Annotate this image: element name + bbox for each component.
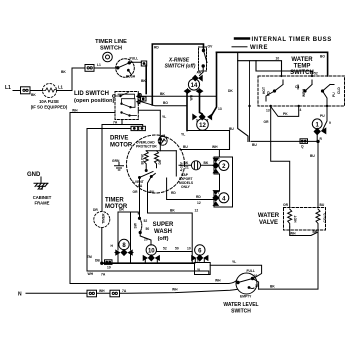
svg-text:BK: BK [204, 161, 209, 165]
svg-text:WH: WH [290, 232, 296, 236]
valve bottom return [259, 227, 318, 289]
svg-text:T: T [218, 191, 220, 195]
motor output RD [167, 178, 214, 200]
wire WH lid switch left [70, 113, 115, 284]
svg-text:WRM: WRM [302, 89, 306, 97]
connector BB on BU wire [300, 139, 308, 144]
svg-text:L1: L1 [5, 85, 11, 91]
svg-text:6: 6 [198, 249, 202, 255]
svg-text:OR: OR [264, 120, 270, 124]
svg-text:9: 9 [329, 121, 331, 125]
labels 52 50 10 [163, 247, 191, 251]
svg-text:PULL: PULL [130, 57, 139, 61]
x-rinse switch (dashed) [199, 47, 208, 71]
svg-text:DR: DR [93, 208, 98, 212]
svg-text:WH: WH [215, 279, 221, 283]
wire BO diagonal from lid switch [141, 102, 187, 106]
wire x-rinse to terminal 14 [200, 67, 204, 76]
label TIMER LINE SWITCH [95, 39, 127, 52]
svg-text:2: 2 [222, 164, 226, 170]
svg-text:10: 10 [197, 259, 201, 263]
svg-text:SWITCH: SWITCH [231, 309, 251, 315]
label WATER VALVE [258, 213, 280, 226]
svg-text:M: M [163, 134, 166, 138]
label X-RINSE SWITCH [165, 58, 196, 70]
svg-text:MOTOR: MOTOR [105, 204, 128, 210]
svg-text:SW: SW [134, 222, 138, 228]
svg-text:SWITCH (off): SWITCH (off) [165, 64, 196, 70]
WH return line [87, 271, 209, 275]
wire into timer line switch [94, 67, 118, 69]
svg-text:(IF SO EQUIPPED): (IF SO EQUIPPED) [31, 105, 68, 110]
connector box under 6 [195, 263, 211, 275]
svg-text:WH: WH [212, 145, 218, 149]
svg-text:TEMP: TEMP [294, 64, 311, 70]
svg-text:YL: YL [181, 133, 185, 137]
svg-text:BU: BU [310, 154, 315, 158]
valve coil cold [316, 209, 327, 227]
svg-text:52: 52 [314, 72, 318, 76]
motor centrifugal switch [139, 170, 156, 179]
svg-text:19: 19 [107, 266, 111, 270]
svg-text:SWITCH: SWITCH [100, 46, 122, 52]
svg-text:SWITCH: SWITCH [290, 70, 314, 76]
svg-text:EMPTY: EMPTY [240, 295, 252, 299]
svg-text:4: 4 [300, 108, 302, 112]
svg-text:L1: L1 [97, 63, 101, 67]
svg-text:YL: YL [162, 115, 166, 119]
svg-text:PUSH: PUSH [126, 75, 136, 79]
svg-text:INTERNAL TIMER BUSS: INTERNAL TIMER BUSS [252, 37, 332, 43]
svg-text:WH: WH [88, 272, 94, 276]
svg-text:WATER: WATER [258, 213, 280, 219]
motor winding main [155, 151, 163, 168]
svg-text:CLD: CLD [337, 87, 341, 94]
svg-text:(open position): (open position) [74, 98, 115, 104]
wire up to timer line switch level [72, 68, 85, 91]
svg-text:BK: BK [31, 93, 36, 97]
svg-text:8A: 8A [138, 184, 143, 188]
label CAP EXPORT MODELS ONLY [179, 173, 194, 189]
svg-text:7A: 7A [101, 273, 106, 277]
labels BU [252, 137, 323, 158]
svg-text:BK: BK [141, 79, 146, 83]
capacitor (export models) [191, 161, 200, 170]
label SUPER WASH [153, 222, 174, 242]
lid switch dashed box [115, 92, 138, 120]
WLS output wire [253, 279, 259, 290]
svg-text:TIMER LINE: TIMER LINE [95, 39, 127, 45]
feed 10 to water temp [238, 61, 282, 76]
terminal 4 (circled) [219, 193, 229, 203]
wire 13 down to valve [271, 106, 290, 208]
drive motor dashed circle [127, 135, 185, 193]
svg-text:YL: YL [232, 260, 236, 264]
label OR, 13 [264, 109, 270, 125]
motor winding start [141, 151, 149, 170]
labels WH 7A [88, 272, 106, 276]
terminal 9 (double circle) [103, 52, 113, 62]
svg-text:RD: RD [267, 91, 271, 96]
svg-text:BU: BU [320, 203, 325, 207]
terminal 10 (circled) [146, 245, 156, 255]
connector diamond + triangles at 12 [193, 114, 212, 120]
svg-text:DK: DK [228, 89, 233, 93]
svg-text:FRAME: FRAME [35, 201, 50, 206]
svg-text:FULL: FULL [247, 269, 255, 273]
connector diamond+triangles at 6 [192, 255, 208, 261]
overload protector symbol [158, 136, 167, 145]
wire terminal 3 to circled 1 [323, 106, 327, 130]
svg-text:10: 10 [148, 249, 155, 255]
svg-text:DRIVE: DRIVE [110, 136, 128, 142]
connector diamond+triangle above 14 [193, 75, 203, 80]
svg-text:10: 10 [187, 247, 191, 251]
wires 8 to bus [115, 253, 133, 264]
wire rect to super wash [118, 212, 138, 250]
small motor ground GRN [112, 159, 124, 170]
labels S T [196, 119, 209, 123]
svg-text:7A: 7A [113, 120, 118, 124]
svg-text:13: 13 [218, 107, 222, 111]
svg-text:BU: BU [229, 127, 234, 131]
temp switch terminal dots [248, 75, 328, 107]
svg-text:1: 1 [316, 122, 320, 128]
label TIMER MOTOR [105, 198, 128, 211]
svg-text:RD: RD [196, 195, 201, 199]
svg-text:50: 50 [175, 247, 179, 251]
svg-text:CABINET: CABINET [33, 195, 52, 200]
timer motor (dashed circle) [94, 212, 110, 228]
svg-text:BU: BU [150, 190, 155, 194]
svg-text:12: 12 [197, 201, 201, 205]
svg-text:HOT: HOT [262, 87, 266, 94]
feed 52 to water temp [256, 61, 312, 76]
svg-text:WH: WH [172, 288, 178, 292]
svg-text:Q: Q [301, 145, 304, 149]
timer bus to water temp switch [217, 52, 328, 76]
WLS contacts [237, 277, 254, 288]
labels 52 50 [134, 219, 150, 242]
label TM DB 19 [87, 255, 111, 270]
svg-text:52: 52 [144, 219, 148, 223]
wire left from connectors [87, 129, 131, 272]
super wash switch (dashed) [138, 214, 151, 245]
connector BB [141, 61, 146, 66]
long WH line to water level switch [70, 280, 237, 283]
svg-text:50: 50 [146, 227, 150, 231]
svg-text:RD: RD [154, 46, 159, 50]
svg-text:OV: OV [208, 45, 214, 49]
svg-text:BK: BK [270, 285, 275, 289]
svg-text:DR: DR [119, 208, 124, 212]
svg-text:BLOW: BLOW [141, 154, 145, 165]
svg-text:BK: BK [160, 92, 165, 96]
connector triangle at 1 [322, 128, 326, 133]
connectors GD GD below lid switch [131, 126, 145, 130]
svg-text:PROTECTOR: PROTECTOR [136, 145, 157, 149]
svg-text:(off): (off) [158, 236, 169, 242]
svg-text:BK: BK [61, 70, 66, 74]
labels WH BR [270, 230, 318, 289]
svg-text:MOTOR: MOTOR [110, 143, 133, 149]
svg-text:OR: OR [283, 203, 289, 207]
terminal 6 (circled) [195, 245, 205, 255]
svg-text:PK: PK [283, 112, 288, 116]
svg-text:BO: BO [163, 101, 168, 105]
motor right winding [176, 151, 183, 176]
wire switch output [129, 61, 141, 64]
motor output OR [139, 178, 141, 215]
temp switch bottom terminal wires [249, 61, 251, 142]
motor output BK down and right [148, 177, 193, 263]
timer line switch (dashed circle, PULL/PUSH) [116, 59, 135, 78]
svg-text:10: 10 [276, 57, 280, 61]
svg-text:TIMER: TIMER [101, 213, 105, 224]
node L1 [5, 85, 11, 91]
connector on N wire [87, 290, 97, 297]
svg-text:OR: OR [133, 190, 139, 194]
svg-text:N: N [18, 292, 22, 298]
ground symbol cabinet frame [34, 177, 48, 189]
legend WIRE [232, 45, 268, 51]
wires 6 to box [195, 259, 204, 263]
wire L1 to fuse [13, 90, 72, 92]
svg-text:WASH: WASH [154, 229, 172, 235]
svg-text:SUPER: SUPER [153, 222, 174, 228]
X-RINSE loop top wire (timer bus) [152, 44, 203, 105]
svg-text:WH: WH [99, 289, 105, 293]
label 16 15 [254, 274, 259, 288]
terminal 12 (circled) [197, 119, 209, 131]
svg-text:TM: TM [87, 255, 92, 259]
timer bus vertical to 12 area [186, 91, 188, 131]
svg-text:4: 4 [222, 196, 226, 202]
wire 14 right contact down [200, 91, 203, 114]
connector diamond+triangles at 8 [116, 250, 132, 256]
label OVERLOAD PROTECTOR [136, 141, 157, 149]
svg-text:L1: L1 [58, 85, 64, 90]
svg-text:BR: BR [313, 230, 318, 234]
svg-text:RD: RD [171, 191, 176, 195]
labels WH 7A WH [99, 288, 178, 294]
svg-text:WH: WH [72, 109, 78, 113]
connector diamond+triangles at 4 [213, 191, 219, 206]
water level switch circle [236, 273, 257, 294]
legend INTERNAL TIMER BUS [235, 37, 332, 43]
svg-text:PU: PU [332, 92, 336, 97]
timer motor feed [101, 125, 103, 264]
svg-text:WATER: WATER [291, 57, 313, 63]
connector BB on bus [105, 260, 113, 265]
svg-text:12: 12 [199, 123, 206, 129]
label DRIVE MOTOR [110, 136, 133, 149]
svg-text:DB: DB [95, 259, 100, 263]
branch down DK/BU [238, 52, 248, 141]
capacitor wire [179, 164, 213, 166]
svg-text:BK: BK [170, 209, 175, 213]
labels BK BK [184, 161, 209, 170]
valve coil hot [288, 209, 298, 227]
wire down to lid switch [145, 65, 147, 93]
water temp switch dashed box [258, 76, 345, 106]
svg-text:C: C [218, 158, 221, 162]
motor top contact from YL [159, 134, 165, 144]
svg-text:LID SWITCH: LID SWITCH [74, 91, 109, 97]
wire BK lid switch to right [141, 95, 216, 97]
wire main feed down right of x-rinse [212, 52, 217, 115]
bowtie connectors below 14 [185, 89, 203, 93]
svg-text:BO: BO [320, 55, 325, 59]
svg-text:PU: PU [320, 114, 325, 118]
svg-text:WH: WH [190, 94, 194, 100]
wires 10 to bus [145, 259, 157, 264]
temp switch contact 1 [262, 80, 283, 101]
temp switch contact 3 [321, 85, 341, 107]
lid switch bottom wires 7A [102, 120, 143, 127]
terminal 14 (circled) [188, 79, 199, 90]
label RD 12 [170, 195, 201, 213]
wire YL lid to motor [138, 110, 160, 151]
connector block 2/4 [214, 157, 233, 207]
connector 2 on N wire [110, 290, 120, 297]
label 1-VENT 8A [132, 180, 144, 188]
svg-text:C4: C4 [295, 85, 299, 89]
svg-text:8: 8 [122, 243, 126, 249]
wire below 12 [187, 131, 230, 150]
svg-text:7A: 7A [122, 289, 127, 293]
water valve dashed box [284, 208, 326, 231]
svg-text:21: 21 [185, 166, 189, 170]
YL wire into WLS [210, 265, 261, 278]
label 10A FUSE [31, 99, 68, 110]
wire WH motor to connector box [180, 150, 230, 158]
svg-text:R: R [320, 137, 323, 141]
terminal 1 (circled) [312, 119, 322, 129]
label C / T [218, 158, 221, 196]
N wire [26, 289, 238, 293]
temp switch contact 2 [295, 80, 312, 97]
bottom bus (timer) [102, 262, 195, 264]
svg-text:WATER LEVEL: WATER LEVEL [223, 302, 258, 308]
open contact into lid switch [138, 94, 141, 97]
svg-text:DR: DR [158, 159, 162, 164]
svg-text:14: 14 [191, 83, 198, 89]
svg-text:BK: BK [184, 161, 189, 165]
svg-text:VALVE: VALVE [259, 220, 278, 226]
connector BB [141, 97, 147, 101]
jumper PK [271, 106, 299, 116]
svg-text:ONLY: ONLY [181, 185, 191, 189]
label OR / BU at valve top [283, 203, 325, 207]
label WATER LEVEL SWITCH [223, 302, 258, 315]
connector on L1 wire [21, 87, 31, 94]
svg-text:BU: BU [183, 145, 188, 149]
lid switch internals [113, 93, 137, 117]
svg-text:10A FUSE: 10A FUSE [39, 99, 59, 104]
svg-text:H: H [111, 244, 114, 248]
terminal 2 (circled) [219, 161, 229, 171]
svg-text:BU: BU [252, 143, 257, 147]
svg-text:WIRE: WIRE [250, 45, 268, 51]
diamond below 1 [314, 128, 320, 134]
motor internal bus [146, 150, 176, 152]
svg-text:52: 52 [163, 247, 167, 251]
svg-text:12: 12 [195, 209, 199, 213]
svg-text:TIMER: TIMER [105, 198, 124, 204]
svg-text:13: 13 [266, 109, 270, 113]
connector diamond+triangles at 2 [213, 158, 219, 173]
label WATER TEMP SWITCH [290, 57, 314, 76]
connector diamond+triangles at 10 [143, 255, 159, 261]
label CABINET FRAME [33, 195, 52, 206]
svg-text:GND: GND [27, 172, 41, 178]
label LID SWITCH [74, 91, 115, 104]
terminal 8 (circled) [119, 239, 129, 249]
fuse F1 10A [43, 84, 57, 98]
labels 10 YL [197, 259, 202, 273]
lid switch output bowties [137, 95, 141, 104]
wire BU horizontal [251, 134, 318, 208]
svg-text:HOT: HOT [294, 216, 298, 223]
wire 52/50/10 horizontal [157, 251, 192, 253]
connector on switch feed [85, 65, 94, 72]
svg-text:COLD: COLD [323, 213, 327, 223]
svg-text:20: 20 [144, 238, 148, 242]
